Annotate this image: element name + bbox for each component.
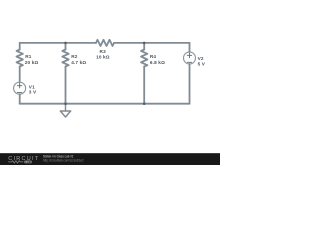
V1 minus sign [17,92,21,94]
voltage source V1 [14,82,26,94]
wire bottom [20,103,190,105]
voltage source V2 [184,52,196,64]
svg-text:10 kΩ: 10 kΩ [96,54,110,59]
svg-text:V2: V2 [198,56,204,61]
svg-text:http://circuitlab.com/c/csv62e: http://circuitlab.com/c/csv62e2 [43,159,84,163]
junction node top R2 [64,42,67,45]
svg-text:4.7 kΩ: 4.7 kΩ [71,60,86,65]
watermark bar [0,153,220,165]
ground stub [65,104,67,111]
svg-text:6.8 kΩ: 6.8 kΩ [150,60,165,65]
wire left vertical lower [19,94,21,104]
wire top right segment [114,42,190,44]
resistor R1 [17,50,23,67]
logo LAB box [24,161,31,164]
ground symbol [60,111,70,117]
wire top left segment [20,42,96,44]
V2 plus sign [187,53,191,57]
resistor R2 [62,50,68,67]
resistor R3 [96,40,114,46]
resistor R4 [141,50,147,67]
junction node bottom R4 [143,102,146,105]
logo resistor zigzag [8,161,23,164]
watermark bar top edge [0,152,220,155]
wire R2 branch lower [65,67,67,104]
svg-text:5 V: 5 V [198,61,206,66]
wire R4 branch upper [143,43,145,50]
svg-text:R1: R1 [25,54,32,59]
svg-text:R2: R2 [71,54,78,59]
wire R4 branch lower [143,67,145,104]
svg-text:V1: V1 [29,84,35,89]
wire left vertical upper [19,43,21,50]
svg-text:3 V: 3 V [29,90,37,95]
svg-text:LAB: LAB [25,160,31,164]
V1 plus sign [17,83,21,87]
wire right vertical upper [189,43,191,52]
wire R2 branch upper [65,43,67,50]
svg-text:R4: R4 [150,54,157,59]
junction node bottom ground [64,102,67,105]
junction node top R4 [143,42,146,45]
wire left vertical mid [19,67,21,83]
V2 minus sign [187,61,191,63]
svg-text:20 kΩ: 20 kΩ [25,60,39,65]
wire right vertical lower [189,64,191,104]
